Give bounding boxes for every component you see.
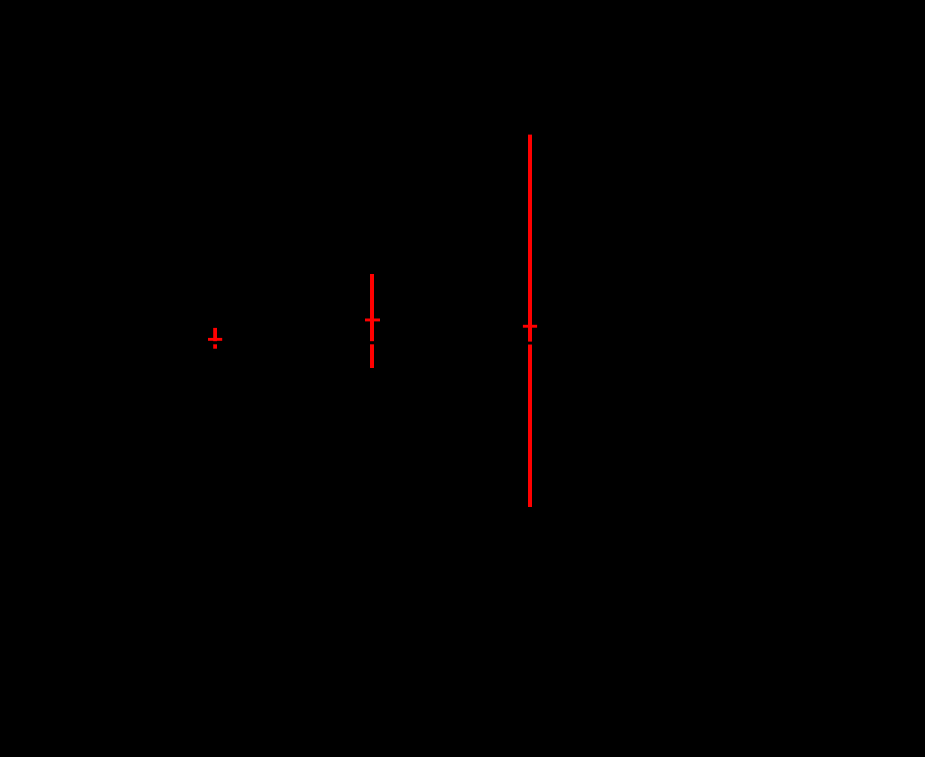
errorbar 2 (middle) mean cap [365, 319, 380, 322]
errorbar 3 (right) mean cap [523, 325, 537, 328]
errorbar 3 (right) vertical line lower segment [528, 345, 532, 508]
errorbar 2 (middle) vertical line lower segment [370, 344, 374, 368]
errorbar 3 (right) vertical line upper segment [528, 135, 532, 342]
errorbar 1 (left) mean cap [208, 338, 222, 341]
errorbar 1 (left) vertical line upper segment [213, 328, 217, 341]
errorbar 2 (middle) vertical line upper segment [370, 274, 374, 341]
errorbar 1 (left) vertical line lower segment [213, 344, 217, 348]
